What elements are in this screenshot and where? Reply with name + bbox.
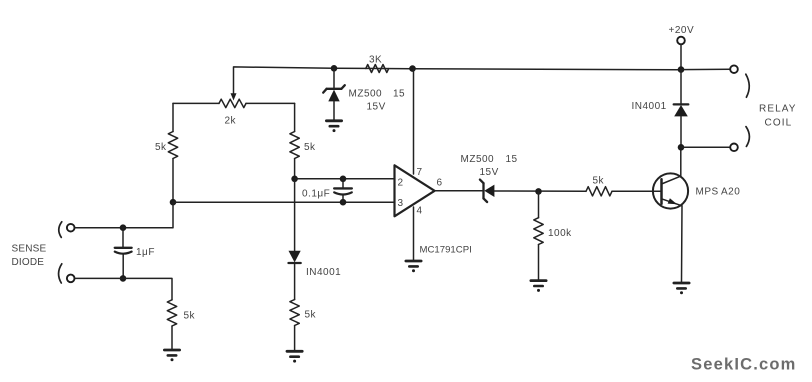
wire top supply rail from potentiometer wiper to +20V node bbox=[234, 67, 682, 97]
diode 1N4001 (relay flyback) bbox=[680, 70, 682, 104]
svg-text:+20V: +20V bbox=[669, 25, 695, 36]
terminal relay coil bottom bbox=[730, 144, 738, 152]
op-amp U1 MC1791CPI bbox=[395, 165, 435, 216]
svg-text:SeekIC.com: SeekIC.com bbox=[691, 356, 797, 374]
wire sense top to input node bbox=[75, 202, 173, 228]
capacitor 0.1uF bbox=[342, 179, 344, 188]
ground (100k) bbox=[531, 279, 546, 282]
svg-text:3: 3 bbox=[398, 198, 404, 209]
svg-text:MZ500: MZ500 bbox=[461, 154, 495, 165]
wire diode to 5k bbox=[294, 263, 296, 300]
node: zener MZ500 tap on rail bbox=[331, 65, 338, 72]
svg-text:COIL: COIL bbox=[765, 118, 793, 129]
svg-text:15V: 15V bbox=[367, 102, 386, 113]
ground (op-amp pin 4) bbox=[406, 260, 421, 263]
ground (emitter) bbox=[674, 282, 689, 285]
wire zener anode to ground bbox=[333, 101, 335, 120]
svg-text:5k: 5k bbox=[184, 311, 196, 322]
node pin 2 net at right 5k bbox=[291, 176, 298, 183]
node input A junction bbox=[170, 199, 177, 206]
svg-text:IN4001: IN4001 bbox=[306, 267, 341, 278]
zener diode MZ500 15V (output level shift) bbox=[480, 180, 487, 202]
sense connector bracket bottom bbox=[59, 264, 62, 283]
wire op-amp pin 3 input bbox=[173, 201, 395, 203]
node 0.1uF top bbox=[340, 176, 347, 183]
wire 5k to ground bbox=[171, 326, 173, 349]
wire op-amp output pin 6 bbox=[435, 190, 483, 192]
resistor 5k (clamp branch) bbox=[290, 300, 299, 326]
wire rail to zener MZ500 cathode bbox=[333, 68, 335, 87]
svg-text:1μF: 1μF bbox=[136, 247, 155, 258]
resistor 5k (left divider) bbox=[168, 132, 177, 159]
wire 100k to ground bbox=[538, 245, 540, 280]
wire pot left corner down bbox=[172, 103, 174, 131]
svg-text:4: 4 bbox=[417, 206, 423, 217]
svg-text:DIODE: DIODE bbox=[12, 257, 45, 268]
ground (clamp branch) bbox=[287, 350, 302, 353]
wire base node down to 100k bbox=[538, 191, 540, 217]
relay connector bracket bottom bbox=[746, 127, 749, 147]
svg-text:0.1μF: 0.1μF bbox=[302, 189, 330, 200]
ground (sense bottom) bbox=[164, 349, 179, 352]
wire sense bottom to 5k bbox=[75, 278, 172, 299]
wire emitter to ground bbox=[681, 206, 684, 282]
node +20V / relay top bbox=[678, 66, 685, 73]
wire left 5k to input node bbox=[172, 159, 174, 203]
resistor 5k (sense bottom) bbox=[167, 300, 176, 326]
emitter stroke with arrow bbox=[662, 199, 683, 206]
wire zener to base node bbox=[494, 190, 586, 192]
potentiometer wiper arrow bbox=[231, 93, 237, 100]
ground (zener MZ500) bbox=[326, 119, 341, 122]
zener diode MZ500 15V (shunt regulator) bbox=[323, 85, 345, 92]
svg-text:MZ500: MZ500 bbox=[349, 89, 383, 100]
svg-text:5k: 5k bbox=[305, 310, 317, 321]
svg-text:7: 7 bbox=[417, 167, 423, 178]
sense connector bracket top bbox=[59, 222, 62, 238]
wire 5k to ground bbox=[294, 326, 296, 351]
wire pot right lead to right 5k branch bbox=[246, 102, 295, 104]
svg-text:5k: 5k bbox=[155, 142, 167, 153]
wire collector up to relay node bbox=[680, 147, 682, 176]
node 100k tap bbox=[535, 188, 542, 195]
svg-text:2: 2 bbox=[398, 178, 404, 189]
wire right 5k to pin 2 node bbox=[294, 159, 296, 179]
svg-text:3K: 3K bbox=[369, 55, 382, 66]
svg-text:MC1791CPI: MC1791CPI bbox=[420, 245, 472, 256]
wire 5k to transistor base bbox=[612, 190, 662, 192]
resistor 5k (right divider) bbox=[290, 132, 299, 159]
node 1uF top bbox=[120, 224, 127, 231]
resistor 5k (base) bbox=[586, 187, 612, 196]
svg-text:5k: 5k bbox=[304, 142, 316, 153]
collector stroke bbox=[662, 176, 681, 184]
wire op-amp pin 2 input bbox=[295, 178, 395, 180]
potentiometer 2k body bbox=[219, 99, 246, 107]
svg-text:2k: 2k bbox=[225, 116, 237, 127]
wire pin2 node down to diode bbox=[294, 179, 296, 251]
wire diode anode to relay bottom node bbox=[680, 116, 682, 147]
svg-text:A20: A20 bbox=[721, 187, 740, 198]
relay connector bracket top bbox=[746, 74, 749, 97]
capacitor 1uF bbox=[122, 228, 124, 247]
wire pot left lead to left 5k branch bbox=[173, 102, 219, 104]
resistor 100k bbox=[534, 218, 543, 245]
svg-text:MPS: MPS bbox=[696, 187, 719, 198]
svg-text:5k: 5k bbox=[593, 176, 605, 187]
resistor 3K bbox=[366, 65, 389, 73]
svg-text:15: 15 bbox=[506, 154, 518, 165]
node: op-amp pin 7 tap on rail bbox=[409, 65, 416, 72]
wire +20V to rail node bbox=[680, 44, 682, 69]
wire pot right corner down bbox=[294, 103, 296, 131]
diode IN4001 (input clamp) bbox=[289, 251, 301, 263]
node 1uF bottom bbox=[120, 275, 127, 282]
svg-text:15: 15 bbox=[393, 89, 405, 100]
wire op-amp pin 7 to rail bbox=[413, 69, 415, 174]
wire relay top lead bbox=[681, 68, 730, 70]
wire op-amp pin 4 to ground bbox=[413, 207, 415, 260]
svg-text:100k: 100k bbox=[548, 228, 572, 239]
terminal sense diode + bbox=[67, 224, 75, 232]
transistor Q1 MPS A20 bbox=[653, 173, 688, 208]
svg-text:IN4001: IN4001 bbox=[632, 101, 667, 112]
svg-text:SENSE: SENSE bbox=[12, 244, 47, 255]
node 0.1uF bottom bbox=[340, 199, 347, 206]
svg-text:15V: 15V bbox=[480, 167, 499, 178]
node relay bottom / collector bbox=[678, 144, 685, 151]
wire relay bottom lead bbox=[681, 146, 730, 148]
terminal relay coil top bbox=[730, 65, 738, 73]
svg-text:6: 6 bbox=[437, 178, 443, 189]
svg-text:RELAY: RELAY bbox=[759, 104, 797, 115]
terminal sense diode - bbox=[67, 275, 75, 283]
